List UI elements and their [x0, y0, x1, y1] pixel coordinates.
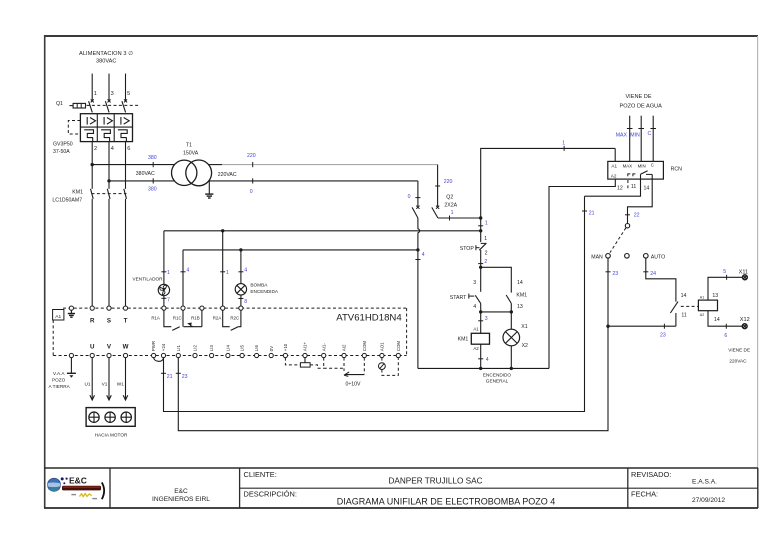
node 380 wire number top [148, 155, 157, 167]
node 1 wire tick Q2 out [450, 210, 454, 221]
wire neutral drop with crossover jog [418, 218, 420, 250]
svg-text:AUTO: AUTO [651, 254, 665, 260]
contactor KM1 pole R [91, 189, 94, 199]
breaker GV3P50 magnetic element pole 1 [87, 117, 95, 125]
terminal +24 [161, 343, 166, 357]
svg-text:4: 4 [473, 304, 476, 310]
node 220 wire number [247, 153, 256, 167]
svg-text:GENERAL: GENERAL [486, 379, 509, 384]
svg-text:A2: A2 [611, 173, 617, 178]
node MIN wire tick [630, 129, 644, 139]
wire 23 horizontal to contact [608, 325, 676, 327]
wire relay bottom to X12 [708, 311, 742, 327]
wire bomba lamp to R2C [240, 295, 242, 306]
svg-text:3: 3 [485, 316, 488, 322]
breaker GV3P50 magnetic element pole 3 [121, 117, 129, 125]
selector moving contact circle [625, 224, 629, 228]
wire transformer secondary top 220 black [208, 164, 222, 166]
junction net4 bomba [239, 248, 242, 251]
terminal COM 2 [396, 341, 401, 358]
svg-text:CLIENTE:: CLIENTE: [244, 470, 277, 479]
wire R2A riser [222, 231, 224, 306]
svg-text:A1: A1 [611, 163, 617, 168]
terminal X12 [740, 317, 750, 329]
svg-text:1: 1 [562, 141, 565, 147]
wire start upper [480, 267, 482, 292]
svg-text:X2: X2 [522, 343, 528, 349]
node 21 wire tick riser [582, 210, 595, 216]
breaker GV3P50 trip linkage dashed [68, 121, 80, 135]
disconnect Q1 pole 3 [105, 99, 110, 112]
svg-text:AI1+: AI1+ [303, 342, 308, 352]
svg-text:+24: +24 [161, 343, 166, 351]
svg-text:23: 23 [182, 374, 188, 380]
svg-text:VENTILADOR: VENTILADOR [133, 277, 164, 282]
junction lamp on rail [510, 367, 513, 370]
svg-text:ALIMENTACION 3 ∅: ALIMENTACION 3 ∅ [79, 50, 133, 57]
wire 23 MAN drop [607, 258, 609, 326]
terminal R [90, 306, 95, 325]
wire RCN A2 return [549, 179, 615, 368]
breaker GV3P50 thermal element pole 1 [84, 130, 93, 142]
svg-text:MAN: MAN [591, 254, 603, 260]
svg-text:ENCENDIDO: ENCENDIDO [483, 372, 511, 377]
svg-text:380: 380 [148, 155, 157, 161]
wire net 4 lamp rail [183, 249, 418, 251]
svg-text:HACIA MOTOR: HACIA MOTOR [95, 433, 128, 438]
node 380 wire number bottom [148, 178, 157, 192]
node 220 wire tick Q2 [435, 179, 452, 186]
svg-text:21: 21 [167, 374, 173, 380]
node 23 wire tick horizontal [660, 324, 666, 339]
svg-text:R1B: R1B [191, 315, 200, 320]
terminal AI1+ [303, 342, 308, 358]
svg-text:RCN: RCN [671, 166, 682, 172]
svg-text:DESCRIPCIÓN:: DESCRIPCIÓN: [244, 490, 297, 499]
svg-text:4: 4 [486, 357, 489, 363]
svg-text:A2: A2 [700, 313, 704, 317]
svg-text:R1A: R1A [151, 315, 160, 320]
disconnect Q1 handle symbol [70, 103, 86, 108]
node 21 wire tick bottom [161, 373, 173, 380]
svg-text:LI1: LI1 [176, 345, 181, 352]
wire transformer secondary top 220 gray run [222, 164, 438, 166]
svg-text:V1: V1 [102, 381, 108, 386]
meter on AO1 output [379, 358, 399, 376]
terminal R2C [230, 306, 243, 320]
selector position AUTO [644, 254, 666, 261]
terminal W [123, 344, 129, 358]
wire phase S contactor to VFD S [108, 199, 110, 306]
contact KM1 aux NO [506, 292, 527, 303]
breaker GV3P50 thermal element pole 2 [101, 130, 110, 142]
svg-text:R2C: R2C [230, 315, 239, 320]
svg-text:1: 1 [485, 220, 488, 226]
svg-text:LI4: LI4 [226, 345, 231, 352]
svg-text:7: 7 [167, 298, 170, 304]
node wire 1 tick ventilador [161, 270, 170, 276]
potentiometer speed reference [285, 358, 323, 369]
junction start branch [479, 266, 482, 269]
svg-text:E&C: E&C [69, 476, 87, 486]
svg-text:5: 5 [723, 269, 726, 275]
svg-text:14: 14 [517, 280, 523, 286]
wire ventilador lamp to R1A [163, 296, 165, 306]
terminal +10 [283, 343, 288, 357]
svg-text:14: 14 [644, 185, 650, 191]
svg-text:22: 22 [634, 213, 640, 219]
terminal LI4 [226, 345, 231, 358]
selector blade dashed [610, 228, 626, 253]
svg-text:C: C [651, 163, 654, 168]
svg-text:13: 13 [712, 293, 718, 299]
contact float changeover blade [670, 302, 678, 313]
wire W1 motor lead [117, 358, 128, 400]
svg-text:27/09/2012: 27/09/2012 [692, 497, 725, 504]
wire phase 1 supply drop [91, 74, 93, 101]
svg-text:AI2: AI2 [342, 344, 347, 351]
terminal PWR [151, 341, 156, 358]
svg-text:S: S [107, 318, 111, 325]
wire bomba lamp drop [240, 250, 242, 284]
svg-text:GV3P50: GV3P50 [53, 142, 73, 148]
node ALIMENTACION 3ph 380VAC [79, 50, 133, 64]
svg-text:R2A: R2A [213, 315, 222, 320]
svg-text:KM1: KM1 [72, 190, 83, 196]
svg-text:14: 14 [681, 293, 687, 299]
terminal LI5 [240, 345, 245, 358]
node wire 4 tick R1C [181, 267, 190, 273]
relay contact R2 [223, 310, 241, 330]
node 22 wire tick [625, 213, 640, 219]
svg-text:23: 23 [612, 271, 618, 277]
wire float contact lower [675, 313, 677, 326]
svg-text:12: 12 [617, 185, 623, 191]
selector position middle [625, 254, 630, 259]
svg-text:MAX: MAX [616, 132, 628, 138]
relay RCN level controller box [608, 161, 664, 179]
svg-text:E.A.S.A.: E.A.S.A. [692, 479, 717, 486]
svg-text:DIAGRAMA UNIFILAR DE ELECTROBO: DIAGRAMA UNIFILAR DE ELECTROBOMBA POZO 4 [337, 497, 556, 507]
wire 23 riser to LI1 [178, 326, 608, 431]
pushbutton STOP NC [460, 243, 487, 252]
svg-text:X12: X12 [740, 317, 750, 323]
ground transformer secondary [205, 181, 213, 198]
svg-text:V.A.A: V.A.A [53, 371, 65, 376]
ground VAA pozo a tierra [49, 353, 76, 389]
svg-text:W: W [123, 344, 129, 351]
wire 24 AUTO drop [646, 258, 676, 302]
svg-text:Q1: Q1 [56, 101, 63, 107]
junction wire 23 branch [606, 325, 609, 328]
node VIENE DE 220VAC [728, 348, 750, 364]
terminal R1A [151, 306, 166, 320]
svg-text:A1: A1 [700, 295, 704, 299]
lamp BOMBA ENCENDIDA label [250, 283, 278, 294]
terminal 0V [269, 346, 274, 358]
node 6 wire tick [724, 324, 727, 340]
wire U1 motor lead [85, 358, 95, 400]
junction phase R transformer tap [91, 163, 94, 166]
junction lamp node [510, 310, 513, 313]
svg-text:PWR: PWR [151, 341, 156, 351]
svg-text:2: 2 [94, 146, 97, 152]
svg-text:ATV61HD18N4: ATV61HD18N4 [336, 313, 402, 324]
terminal LI3 [209, 345, 214, 358]
svg-text:STOP: STOP [460, 246, 475, 252]
ground VFD chassis terminal [68, 306, 75, 317]
wire R1C riser [182, 250, 184, 306]
svg-text:FECHA:: FECHA: [631, 490, 658, 499]
wire RCN 14 to selector [628, 179, 653, 223]
wire phase S breaker to contactor [108, 142, 110, 189]
disconnect Q1 pole 5 [122, 99, 127, 112]
svg-text:MIN: MIN [630, 132, 640, 138]
junction coil node [479, 310, 482, 313]
lamp X1 encendido general [503, 329, 520, 346]
svg-text:24: 24 [650, 271, 656, 277]
svg-text:COM: COM [396, 341, 401, 352]
svg-text:LI2: LI2 [193, 345, 198, 352]
svg-text:11: 11 [631, 184, 636, 190]
junction net1 rail stop [479, 229, 482, 232]
wire transformer primary top 380 [92, 164, 175, 166]
linkage dashed to relay [681, 305, 698, 307]
terminal V [107, 344, 112, 358]
svg-text:POZO: POZO [52, 378, 66, 383]
wire C probe [652, 116, 654, 162]
wire seal-in link [481, 311, 512, 313]
wire RCN 11 to wire 21 [585, 179, 641, 196]
svg-text:1: 1 [94, 91, 97, 97]
junction coil on rail [479, 367, 482, 370]
wire lamp X1 drop [510, 312, 512, 329]
breaker GV3P50 value label [53, 142, 73, 156]
transformer T1 label [183, 142, 199, 156]
svg-text:0V: 0V [269, 346, 274, 351]
wire ventilador lamp drop [163, 231, 165, 285]
junction phase S transformer tap [107, 179, 110, 182]
svg-text:4: 4 [111, 146, 114, 152]
breaker GV3P50 thermal element pole 3 [118, 130, 127, 142]
svg-text:220VAC: 220VAC [218, 172, 237, 178]
terminal AI2 [342, 344, 347, 358]
svg-text:A TIERRA: A TIERRA [49, 384, 71, 389]
wire AI1- to AI2 dashed [324, 358, 344, 369]
node 0 wire number [250, 178, 253, 195]
svg-text:11: 11 [681, 312, 686, 318]
node wire 8 tick [238, 299, 247, 305]
svg-text:COM: COM [362, 341, 367, 352]
svg-text:MAX: MAX [623, 163, 633, 168]
svg-text:U: U [90, 344, 95, 351]
selector position MAN [591, 254, 610, 261]
relay RCN internal changeover [628, 171, 652, 189]
transformer T1 primary winding [172, 160, 197, 185]
breaker Q2 pole N 0 side [412, 181, 419, 218]
wire MAX probe [629, 116, 631, 162]
svg-text:5: 5 [127, 91, 130, 97]
svg-text:23: 23 [660, 333, 666, 339]
node 23 wire tick bottom [176, 373, 188, 380]
svg-text:21: 21 [589, 210, 595, 216]
junction net1 R2A [221, 229, 224, 232]
node C wire tick [648, 129, 657, 138]
svg-text:X11: X11 [739, 269, 749, 275]
svg-text:U1: U1 [85, 381, 91, 386]
svg-text:380: 380 [148, 186, 157, 192]
wire PWR to +24 jumper loop [154, 358, 164, 362]
svg-text:A1: A1 [473, 327, 479, 332]
svg-text:4: 4 [244, 267, 247, 273]
node wire 7 tick [161, 298, 170, 304]
svg-text:1: 1 [451, 210, 454, 216]
wire relay top to X11 [708, 277, 742, 300]
svg-text:1: 1 [484, 236, 487, 242]
svg-text:13: 13 [517, 304, 523, 310]
node wire 4 tick bomba [238, 267, 247, 273]
svg-text:W1: W1 [117, 381, 124, 386]
svg-text:VIENE DE: VIENE DE [625, 94, 651, 100]
node 4 wire tick coil [478, 357, 489, 363]
svg-text:MIN: MIN [638, 163, 646, 168]
svg-text:KM1: KM1 [516, 292, 527, 298]
wire net 1 lamp rail [164, 230, 481, 232]
svg-text:220VAC: 220VAC [729, 359, 747, 364]
svg-text:BOMBA: BOMBA [250, 283, 268, 288]
svg-text:LC1D50AM7: LC1D50AM7 [52, 197, 82, 203]
wire transformer primary bottom 380 [109, 180, 175, 182]
svg-text:T1: T1 [186, 142, 192, 148]
svg-text:AI1-: AI1- [321, 343, 326, 352]
svg-text:A2: A2 [473, 346, 479, 351]
svg-text:X1: X1 [521, 324, 527, 330]
svg-text:VIENE DE: VIENE DE [728, 348, 750, 353]
svg-text:3: 3 [111, 91, 114, 97]
svg-text:REVISADO:: REVISADO: [631, 470, 671, 479]
svg-text:DANPER TRUJILLO SAC: DANPER TRUJILLO SAC [388, 477, 482, 486]
node 23 wire tick MAN [606, 271, 619, 277]
node 3 wire tick [478, 316, 488, 322]
terminal COM [362, 341, 367, 358]
terminal S [107, 306, 111, 325]
node VIENE DE POZO DE AGUA [620, 94, 663, 109]
wire phase T contactor to VFD T [125, 199, 127, 306]
terminal AO1 [380, 342, 385, 358]
wire neutral to encendido rail [417, 250, 419, 369]
disconnect Q1 linkage dashed [87, 104, 139, 106]
svg-text:R1C: R1C [173, 315, 182, 320]
svg-text:1: 1 [167, 270, 170, 276]
lamp VENTILADOR fan symbol [158, 284, 169, 295]
contactor KM1 pole S [107, 189, 110, 199]
node wire 1 tick R2A [220, 270, 229, 276]
svg-text:4: 4 [422, 252, 425, 258]
svg-text:LI5: LI5 [240, 345, 245, 352]
svg-text:AO1: AO1 [380, 342, 385, 351]
terminal T [123, 306, 127, 325]
breaker GV3P50 magnetic element pole 2 [104, 117, 112, 125]
junction net4 neutral [416, 248, 419, 251]
node 5 wire tick [723, 269, 726, 280]
svg-text:C: C [648, 131, 652, 137]
svg-text:1: 1 [226, 270, 229, 276]
svg-text:2X2A: 2X2A [444, 202, 457, 208]
svg-text:8: 8 [244, 299, 247, 305]
svg-text:3: 3 [473, 280, 476, 286]
svg-text:START: START [450, 295, 467, 301]
svg-text:6: 6 [127, 146, 130, 152]
wire MIN probe [640, 116, 642, 162]
wire coil A2 to rail [480, 344, 482, 368]
node 1 wire tick RCN feed [562, 141, 565, 151]
node A1 boxed marker [53, 310, 64, 321]
svg-text:KM1: KM1 [458, 337, 469, 343]
svg-text:150VA: 150VA [183, 150, 199, 156]
junction Q2 out node [479, 216, 482, 219]
breaker GV3P50 box [80, 114, 132, 142]
wire hot riser to RCN rail [481, 148, 616, 218]
svg-text:380VAC: 380VAC [136, 171, 155, 177]
node MAX wire tick [616, 129, 633, 139]
svg-text:T: T [124, 318, 128, 325]
contactor KM1 label [52, 190, 83, 204]
svg-text:+10: +10 [283, 343, 288, 351]
wire to coil A1 [480, 312, 482, 333]
terminal R1C [173, 306, 185, 320]
wire encendido general rail [418, 367, 549, 369]
signal arrow 0-10V [344, 358, 364, 388]
svg-text:6: 6 [724, 333, 727, 339]
node 1 wire tick stop feed [478, 220, 488, 226]
svg-text:POZO DE AGUA: POZO DE AGUA [620, 103, 663, 109]
svg-text:37-50A: 37-50A [53, 149, 70, 155]
wire 21 riser [164, 196, 585, 411]
wire RCN A1 drop [614, 148, 616, 161]
wire phase T breaker to contactor [125, 142, 127, 189]
terminal R1B [191, 306, 204, 320]
terminal block HACIA MOTOR [86, 408, 135, 438]
svg-text:14: 14 [714, 317, 720, 323]
svg-text:ENCENDIDA: ENCENDIDA [250, 289, 278, 294]
node 24 wire tick [643, 271, 656, 277]
node ENCENDIDO GENERAL label [483, 372, 511, 383]
svg-text:E&C: E&C [174, 488, 188, 495]
svg-text:0: 0 [250, 189, 253, 195]
svg-text:2: 2 [484, 259, 487, 265]
wire start lower to coil node [480, 303, 482, 312]
relay coil box X relay [698, 300, 717, 311]
wire phase 3 supply drop [108, 74, 110, 101]
lamp BOMBA ENCENDIDA symbol [235, 284, 246, 295]
svg-text:LI3: LI3 [209, 345, 214, 352]
svg-text:LI6: LI6 [254, 345, 259, 352]
svg-text:Q2: Q2 [446, 195, 453, 201]
wire V1 motor lead [102, 358, 112, 400]
svg-text:R: R [90, 318, 95, 325]
transformer T1 secondary winding [186, 160, 212, 186]
wire phase R contactor to VFD R [91, 199, 93, 306]
wire stop to start node [480, 250, 482, 267]
terminal X11 [739, 269, 749, 279]
wire hot down to stop chain [480, 218, 482, 242]
svg-text:INGENIEROS EIRL: INGENIEROS EIRL [152, 496, 210, 503]
svg-text:4: 4 [186, 267, 189, 273]
breaker Q2 pole L 220 side [432, 165, 481, 218]
terminal R2A [213, 306, 225, 320]
terminal LI1 [176, 345, 181, 358]
disconnect Q1 pole 1 [89, 99, 94, 112]
